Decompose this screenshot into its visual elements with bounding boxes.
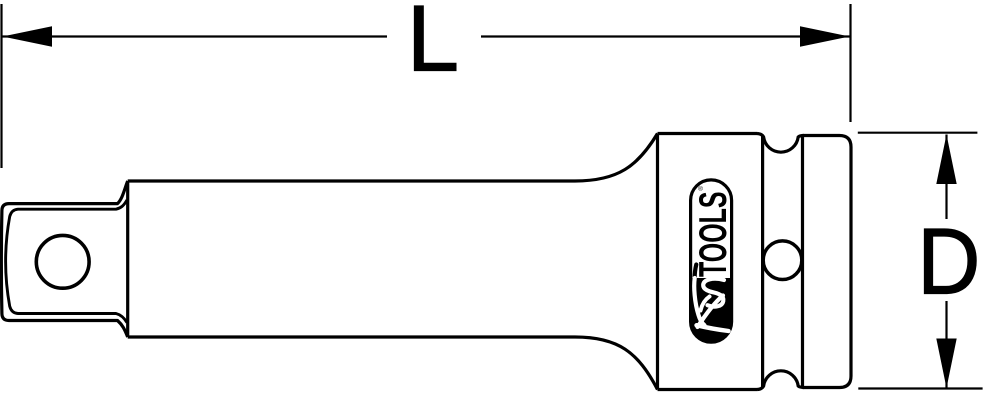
end ring outline (803, 136, 852, 388)
dimension D: down arrowhead (936, 339, 956, 389)
head cylinder top edge (658, 132, 758, 135)
dimension D: top extension line (858, 132, 978, 134)
dimension L: left arrowhead (3, 26, 53, 46)
svg-text:L: L (407, 0, 459, 91)
logo script K lead-in swash (black above field boundary) (695, 265, 697, 279)
svg-text:®: ® (697, 186, 705, 191)
groove top notch (757, 134, 804, 153)
square drive: outer outline (1, 181, 127, 337)
head cylinder left face line (656, 134, 659, 390)
dimension D: upper line segment (945, 135, 947, 220)
shaft top edge with flare to head (128, 134, 658, 182)
dimension D: bottom extension line (858, 387, 982, 389)
dimension D: lower line segment (945, 301, 947, 388)
logo KS black field (691, 278, 732, 342)
head cylinder bottom edge (658, 388, 758, 391)
dimension L: right extension line (849, 4, 851, 122)
dimension L: left line segment (3, 35, 388, 37)
ball detent circle (36, 235, 89, 288)
logo script S body (703, 279, 724, 307)
logo script K arm (701, 297, 710, 311)
svg-text:D: D (917, 210, 980, 315)
pin hole circle (763, 241, 802, 280)
end ring left face line (801, 136, 804, 388)
groove bottom notch (757, 371, 804, 390)
svg-text:TOOLS: TOOLS (692, 192, 735, 278)
logo script K stem (697, 325, 729, 331)
head cylinder right face line (761, 135, 764, 388)
logo script K swash (white inside black field) (694, 278, 704, 325)
dimension L: left extension line (0, 4, 2, 168)
logo script K leg (698, 296, 724, 328)
dimension L: right arrowhead (800, 26, 850, 46)
KS Tools logo capsule (white, black outline) (691, 180, 732, 342)
dimension D: up arrowhead (936, 135, 956, 185)
dimension L: right line segment (481, 35, 850, 37)
square drive: chamfer inner line (6, 200, 127, 323)
shaft left face line (126, 181, 129, 337)
shaft bottom edge with flare to head (128, 337, 658, 390)
